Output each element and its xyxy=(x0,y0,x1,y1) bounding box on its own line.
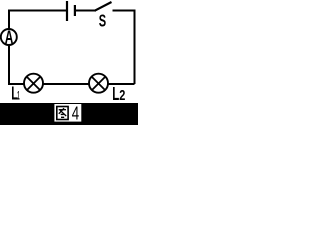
svg-text:L: L xyxy=(112,84,119,104)
label L2 xyxy=(112,84,125,104)
lamp L1 xyxy=(24,74,43,93)
wire top-left segment xyxy=(9,11,66,29)
battery B1 long plate xyxy=(66,1,68,21)
svg-text:A: A xyxy=(5,28,14,48)
label L1 xyxy=(11,83,19,103)
wire bottom-right segment xyxy=(108,83,135,85)
svg-text:1: 1 xyxy=(17,88,19,102)
caption glyph tu (图) xyxy=(57,107,68,120)
switch S lever xyxy=(95,2,112,11)
lamp L2 xyxy=(89,74,108,93)
svg-text:2: 2 xyxy=(119,88,125,104)
wire bottom-left segment xyxy=(9,46,24,85)
ammeter A1 xyxy=(1,28,17,48)
caption white box xyxy=(54,104,81,122)
svg-text:4: 4 xyxy=(72,103,79,124)
wire battery to switch xyxy=(76,10,96,12)
svg-text:S: S xyxy=(99,11,107,31)
caption bar xyxy=(0,103,138,125)
wire switch to top-right corner and down right side xyxy=(113,11,135,85)
wire between lamps xyxy=(44,83,90,85)
battery B1 short plate xyxy=(74,5,76,16)
